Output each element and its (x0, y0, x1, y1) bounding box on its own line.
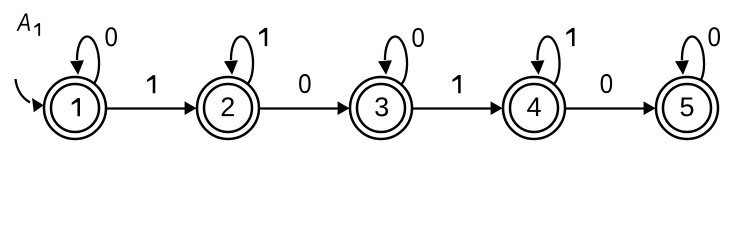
wire transition 2 to 3 (259, 107, 341, 109)
self loop state 1 (77, 37, 99, 84)
state 3 outer circle (350, 77, 412, 139)
state 5 inner circle (663, 84, 711, 132)
state 5 outer circle (656, 77, 718, 139)
loop label 0 (state 5) (709, 27, 720, 46)
state 2 inner circle (204, 84, 252, 132)
self loop state 5 (682, 37, 704, 81)
state 4 label (527, 98, 541, 117)
loop label 1 (state 2) (259, 28, 267, 46)
state 4 outer circle (503, 77, 565, 139)
state 3 label (375, 97, 388, 116)
wire transition 3 to 4 (412, 107, 494, 109)
automaton name subscript 1 (34, 23, 40, 36)
state 4 inner circle (510, 84, 558, 132)
wire transition 1 to 2 (106, 107, 188, 109)
transition label 1 (147, 75, 155, 93)
state 2 outer circle (197, 77, 259, 139)
self loop state 2 (231, 37, 253, 84)
transition label 0 (299, 74, 310, 93)
state 3 inner circle (357, 84, 405, 132)
state 1 inner circle (51, 84, 99, 132)
wire transition 4 to 5 (565, 107, 647, 109)
state 5 label (681, 98, 694, 117)
loop label 0 (state 3) (412, 28, 423, 47)
state 1 outer circle (44, 77, 106, 139)
self loop state 3 (385, 37, 407, 85)
transition label 1 (452, 75, 460, 93)
loop label 0 (state 1) (105, 27, 116, 46)
self loop state 4 (537, 37, 559, 85)
state 1 label (72, 98, 80, 116)
automaton name label A (16, 14, 30, 31)
start arrow into state 1 (16, 79, 31, 103)
transition label 0 (601, 74, 612, 93)
state 2 label (222, 97, 234, 116)
loop label 1 (state 4) (566, 28, 574, 46)
